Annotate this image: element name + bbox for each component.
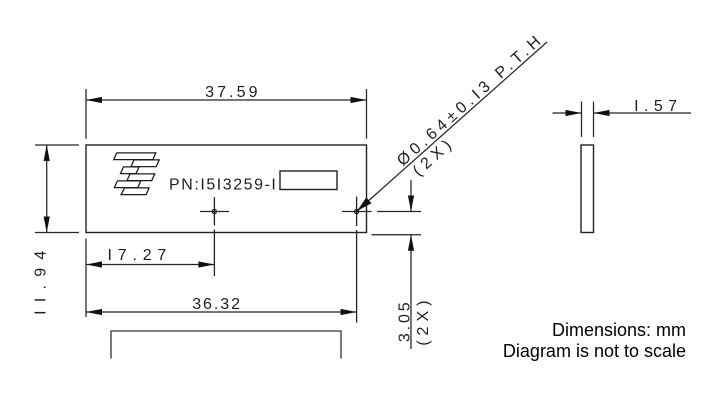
dimension 1.57 extension lines: [582, 102, 594, 138]
hole H1 crosshair: [200, 197, 229, 226]
left extension line below part: [85, 239, 87, 318]
dimension 1.57 left arrow segment: [553, 110, 582, 116]
dimension 11.94 extension lines: [35, 145, 79, 233]
dimension 17.27 arrow right: [198, 261, 214, 267]
logo bar 4: [127, 174, 155, 181]
hole callout qty (2X): [410, 134, 459, 180]
dimension 17.27 text: [108, 247, 173, 264]
svg-text:PN:I5I3259-I: PN:I5I3259-I: [169, 177, 277, 194]
hole H2 crosshair: [342, 197, 372, 227]
svg-text:37.59: 37.59: [205, 84, 261, 101]
hole H2 centerline below: [356, 230, 358, 323]
dimension 1.57 text: [634, 98, 682, 115]
dimension 3.05 upper arrow: [408, 180, 414, 212]
bottom view outline: [111, 331, 341, 359]
logo bar 6: [121, 188, 149, 195]
svg-text:Dimensions: mm: Dimensions: mm: [552, 320, 686, 340]
dimension 1.57 right arrow segment: [594, 110, 692, 116]
svg-text:Diagram is not to scale: Diagram is not to scale: [503, 341, 686, 361]
svg-text:36.32: 36.32: [192, 296, 242, 313]
dimension 36.32 text: [192, 296, 242, 313]
svg-text:I.57: I.57: [634, 98, 682, 115]
dimension 37.59 extension lines: [86, 89, 367, 139]
dimension 36.32 arrow left: [86, 309, 102, 315]
side view outline: [581, 145, 594, 233]
dimension 17.27 line: [86, 264, 214, 266]
dimension 37.59 arrow right: [351, 97, 367, 103]
logo bar 1: [114, 153, 156, 160]
dimension 11.94 text: [33, 242, 50, 314]
dimension 3.05 qty text (2X): [415, 296, 432, 346]
part number text PN:1513259-1: [169, 177, 277, 194]
dimension 17.27 arrow left: [86, 261, 102, 267]
dimension 37.59 arrow left: [86, 97, 102, 103]
svg-text:II.94: II.94: [33, 242, 50, 314]
hole callout text: [394, 30, 547, 169]
hole H1 centerline below: [213, 230, 215, 277]
leader arrow: [357, 197, 372, 211]
logo bar 2: [131, 160, 159, 167]
dimension 11.94 arrow up: [44, 145, 50, 161]
svg-text:3.05: 3.05: [397, 299, 414, 342]
note text not to scale: [503, 341, 686, 361]
dimension 37.59 text: [205, 84, 261, 101]
svg-text:I7.27: I7.27: [108, 247, 173, 264]
dimension 11.94 line: [46, 145, 48, 233]
main view part outline: [86, 145, 367, 233]
leader line for hole callout: [357, 42, 547, 211]
note text dimensions mm: [552, 320, 686, 340]
dimension 36.32 line: [86, 311, 357, 313]
dimension 11.94 arrow down: [44, 217, 50, 233]
dimension 37.59 line: [86, 99, 367, 101]
dimension 3.05 text: [397, 299, 414, 342]
dimension 3.05 extension lines: [372, 212, 422, 235]
dimension 36.32 arrow right: [341, 309, 357, 315]
label box: [280, 171, 337, 190]
logo bar 5: [114, 181, 140, 188]
logo bar 3: [121, 167, 140, 174]
svg-text:(2X): (2X): [415, 296, 432, 346]
dimension 3.05 lower arrow and tail: [408, 235, 414, 349]
svg-text:Ø0.64±0.I3 P.T.H: Ø0.64±0.I3 P.T.H: [394, 30, 547, 169]
